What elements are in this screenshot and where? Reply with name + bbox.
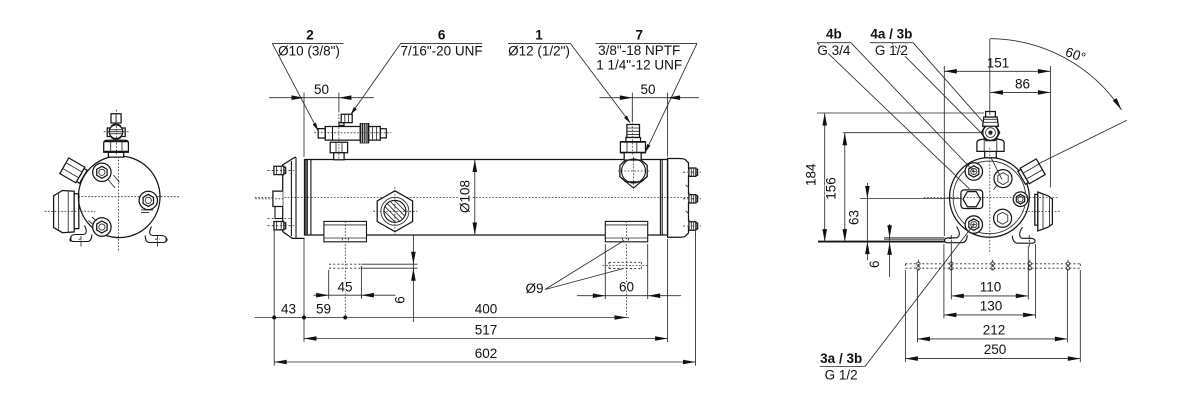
neck bbox=[624, 153, 641, 161]
svg-text:212: 212 bbox=[983, 323, 1006, 338]
dim 6 end view bbox=[867, 224, 892, 277]
svg-text:156: 156 bbox=[824, 177, 839, 200]
dim 250 bbox=[905, 270, 1080, 362]
label 4b bbox=[817, 27, 851, 58]
leader 4b to top-left plug bbox=[851, 43, 974, 172]
right foot bbox=[1012, 227, 1035, 246]
face screw bottom-left bbox=[89, 217, 112, 236]
shell centerline bbox=[255, 196, 700, 198]
svg-text:G 3/4: G 3/4 bbox=[817, 43, 851, 58]
svg-text:Ø108: Ø108 bbox=[458, 180, 473, 213]
svg-text:6: 6 bbox=[393, 296, 408, 304]
side hex port on shell bbox=[374, 188, 418, 237]
dim chain 43 59 400 bbox=[255, 231, 629, 366]
left valve assembly bbox=[315, 111, 392, 160]
inner rim circle bbox=[953, 161, 1026, 234]
cap bolt top bbox=[274, 166, 286, 174]
svg-text:50: 50 bbox=[314, 82, 329, 97]
svg-text:517: 517 bbox=[475, 322, 498, 337]
cap bolt 2 bbox=[689, 195, 698, 203]
dim 156 bbox=[824, 133, 981, 242]
svg-text:400: 400 bbox=[475, 301, 498, 316]
left end cap bbox=[256, 157, 305, 238]
right end cap bbox=[668, 159, 701, 238]
dim 184 bbox=[803, 113, 984, 242]
face screw top-left bbox=[965, 163, 982, 180]
svg-text:130: 130 bbox=[980, 299, 1003, 314]
svg-text:6: 6 bbox=[438, 28, 446, 43]
top fitting stack bbox=[977, 112, 1004, 158]
right plug assembly bbox=[618, 110, 649, 190]
3 o'clock big hex nut bbox=[1022, 192, 1060, 231]
right tube sheet lines bbox=[660, 160, 662, 236]
svg-text:6: 6 bbox=[867, 260, 882, 268]
main outer circle bbox=[950, 158, 1030, 238]
dim 517 bbox=[304, 239, 668, 342]
right stub bbox=[369, 127, 381, 141]
dim 60 degrees bbox=[990, 39, 1124, 111]
phantom slot right foot bbox=[609, 262, 642, 268]
svg-text:1: 1 bbox=[535, 28, 543, 43]
svg-text:60°: 60° bbox=[1063, 44, 1087, 65]
valve top hex bbox=[339, 123, 344, 126]
leader 3a/3b to bottom-left plug bbox=[865, 226, 973, 367]
dim diameter 108 bbox=[458, 160, 478, 236]
knurled ring bbox=[360, 124, 369, 143]
face screw top-left bbox=[93, 163, 120, 188]
valve bottom hex bbox=[330, 142, 347, 153]
svg-text:4a / 3b: 4a / 3b bbox=[870, 27, 912, 42]
left foot bbox=[324, 221, 367, 316]
port 4a top-center bbox=[994, 170, 1013, 190]
face screw right bbox=[1013, 192, 1028, 207]
left foot strap bbox=[70, 226, 92, 249]
mounting plane reference lines bbox=[884, 238, 945, 239]
dim 45 bbox=[314, 266, 396, 299]
svg-text:3/8"-18 NPTF: 3/8"-18 NPTF bbox=[598, 43, 680, 58]
svg-text:59: 59 bbox=[316, 301, 331, 316]
big hex plug in shell bbox=[620, 160, 647, 182]
dim 151 bbox=[944, 56, 1050, 237]
stepped nipple bbox=[627, 125, 640, 138]
60 degree ray bbox=[1036, 120, 1127, 165]
label 2 bbox=[272, 28, 343, 132]
label 3a/3b bbox=[820, 351, 865, 383]
svg-text:110: 110 bbox=[980, 280, 1002, 295]
svg-text:Ø10 (3/8"): Ø10 (3/8") bbox=[278, 44, 340, 59]
dim 86 bbox=[990, 39, 1051, 188]
label 7 bbox=[596, 28, 697, 154]
leader 4a/3b to top fitting bbox=[892, 43, 981, 133]
10 o'clock rotated hex bbox=[60, 158, 88, 185]
face screw right bbox=[139, 191, 157, 212]
svg-text:602: 602 bbox=[475, 346, 498, 361]
left tube sheet lines bbox=[306, 160, 311, 236]
cap bolt 1 bbox=[689, 168, 698, 176]
svg-text:Ø12 (1/2"): Ø12 (1/2") bbox=[508, 44, 570, 59]
dim 60 right foot bbox=[577, 244, 681, 299]
svg-text:7: 7 bbox=[635, 28, 643, 43]
shell body bbox=[305, 160, 668, 236]
crosshair centerlines bbox=[924, 148, 1058, 252]
port 3a bottom-center bbox=[994, 209, 1012, 227]
label diameter 9 with leaders bbox=[525, 241, 624, 297]
dim 602 bbox=[274, 231, 695, 366]
phantom mounting plane left bbox=[329, 264, 361, 268]
cap bolt 3 bbox=[689, 222, 698, 230]
svg-text:3a / 3b: 3a / 3b bbox=[820, 351, 862, 366]
label 1 bbox=[508, 28, 632, 125]
label 4a/3b bbox=[870, 27, 913, 58]
svg-text:50: 50 bbox=[640, 82, 655, 97]
svg-text:1 1/4"-12 UNF: 1 1/4"-12 UNF bbox=[596, 58, 682, 73]
leader 4a/3b to top-center port bbox=[913, 43, 1002, 180]
left foot bbox=[945, 227, 968, 247]
dim 50 left bbox=[269, 82, 374, 157]
svg-text:G 1/2: G 1/2 bbox=[875, 43, 908, 58]
dim 110 bbox=[951, 246, 1028, 300]
dim 63 bbox=[847, 183, 962, 260]
port G3/4 left-center bbox=[961, 190, 983, 209]
right foot bbox=[605, 221, 647, 316]
dim 212 bbox=[917, 270, 1067, 343]
svg-text:2: 2 bbox=[306, 28, 314, 43]
label 6 bbox=[349, 28, 483, 116]
hex nut bbox=[620, 142, 645, 153]
9 o'clock big hex nut bbox=[45, 191, 95, 233]
left center port bbox=[273, 191, 283, 206]
main circle bbox=[78, 156, 160, 238]
leader 4b to G3/4 port bbox=[817, 43, 969, 189]
svg-text:250: 250 bbox=[984, 342, 1007, 357]
svg-text:45: 45 bbox=[337, 279, 352, 294]
svg-text:86: 86 bbox=[1015, 77, 1030, 92]
face screw bottom-left bbox=[965, 216, 982, 233]
dim 130 bbox=[944, 244, 1036, 319]
crosshair centerlines bbox=[62, 150, 180, 252]
svg-text:7/16"-20 UNF: 7/16"-20 UNF bbox=[401, 44, 483, 59]
label leader lines bbox=[817, 43, 1127, 367]
phantom mounting plate bbox=[905, 260, 1080, 272]
dim 50 right bbox=[600, 82, 700, 157]
valve body bbox=[325, 127, 360, 141]
svg-text:4b: 4b bbox=[826, 27, 842, 42]
valve stack on top bbox=[104, 110, 129, 157]
svg-text:184: 184 bbox=[803, 163, 818, 186]
svg-text:43: 43 bbox=[281, 301, 296, 316]
right foot strap bbox=[145, 227, 167, 249]
svg-text:G 1/2: G 1/2 bbox=[825, 368, 858, 383]
svg-text:Ø9: Ø9 bbox=[525, 281, 543, 296]
svg-text:63: 63 bbox=[847, 210, 862, 225]
dim 6 main bbox=[393, 235, 416, 322]
cap bolt bottom bbox=[274, 222, 286, 230]
2 o'clock rotated hex port bbox=[1017, 159, 1045, 186]
svg-text:60: 60 bbox=[619, 280, 634, 295]
